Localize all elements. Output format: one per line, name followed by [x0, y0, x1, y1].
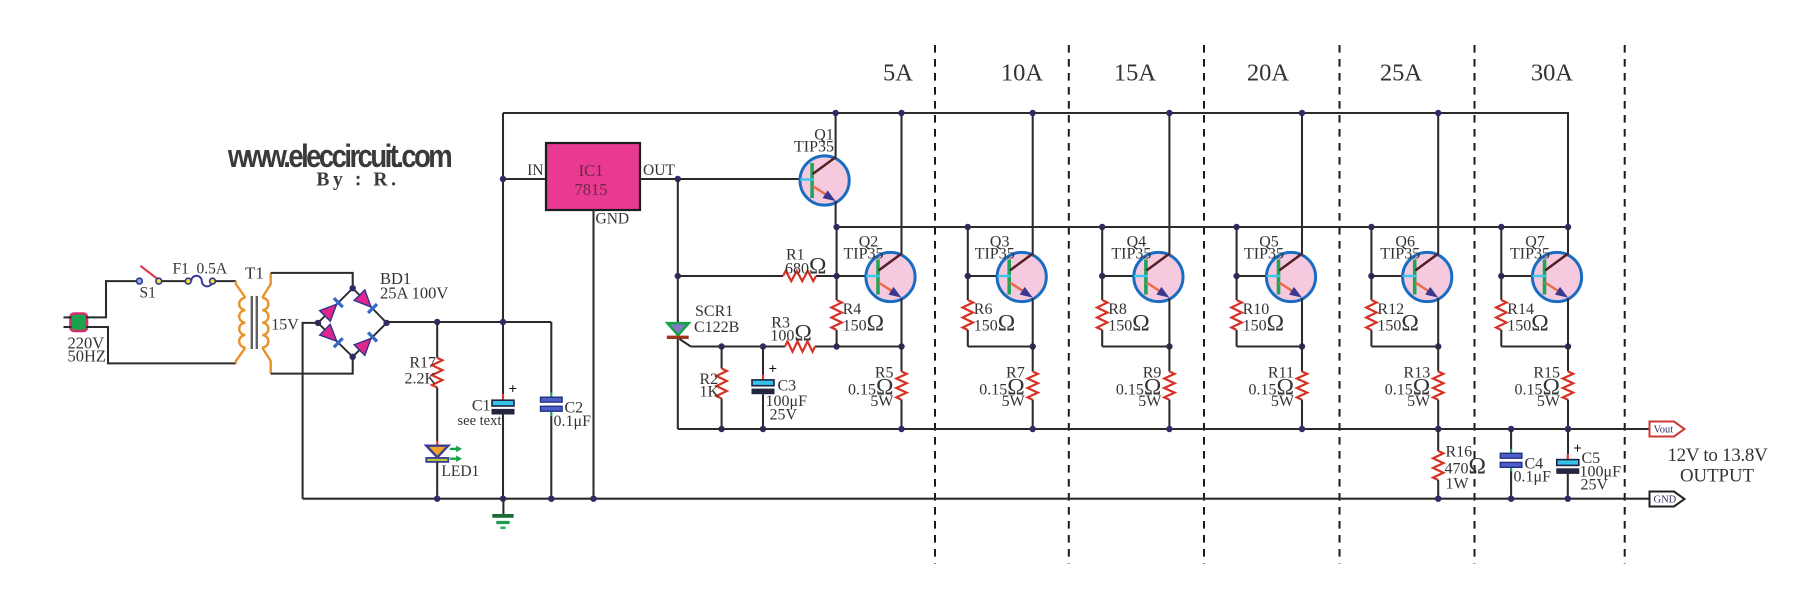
fuse F1 terminal right	[210, 278, 216, 284]
svg-text:GND: GND	[1654, 495, 1677, 506]
wire base drop Q7	[1500, 227, 1502, 276]
wire emitter join Q5	[1237, 345, 1302, 347]
label R15 0.15ohm	[1515, 374, 1560, 400]
base drive rail	[837, 226, 1568, 228]
wire R17 top	[436, 322, 438, 358]
resistor R15	[1563, 347, 1573, 430]
svg-text:7815: 7815	[575, 180, 608, 199]
svg-text:1K: 1K	[700, 384, 720, 401]
wire C1 to ground rail	[502, 415, 504, 499]
wire emitter join Q7	[1501, 345, 1568, 347]
svg-text:5W: 5W	[1002, 393, 1026, 410]
svg-text:12V to 13.8V: 12V to 13.8V	[1667, 445, 1768, 466]
wire base drop Q2	[836, 227, 838, 276]
wire unregulated DC riser	[502, 113, 504, 179]
wire base lead Q2	[837, 275, 867, 277]
wire BD1 right node to C2	[387, 321, 552, 323]
label 15V	[271, 317, 299, 334]
switch S1 contact right	[156, 278, 162, 284]
node R16 bottom	[1435, 496, 1441, 502]
resistor R3	[785, 341, 815, 351]
svg-text:10A: 10A	[1001, 60, 1044, 87]
svg-text:5W: 5W	[870, 393, 894, 410]
wire IN node down to filter	[502, 179, 504, 395]
svg-text:see text: see text	[458, 413, 502, 429]
wire emitter Q3	[1032, 298, 1034, 346]
scr SCR1 triangle	[668, 323, 689, 335]
svg-text:0.1μF: 0.1μF	[1514, 469, 1552, 486]
transformer T1 core	[252, 296, 257, 349]
transformer T1 secondary winding	[262, 273, 271, 374]
wire base lead Q7	[1501, 275, 1532, 277]
svg-text:IC1: IC1	[579, 161, 604, 180]
transistor Q1	[800, 156, 849, 205]
resistor R6	[963, 276, 973, 347]
plug prong bottom	[64, 326, 72, 328]
svg-text:0.5A: 0.5A	[197, 261, 228, 278]
node base rail Q3	[965, 224, 971, 230]
label R5 5W	[870, 393, 894, 410]
wire base drop Q3	[967, 227, 969, 276]
resistor R11	[1297, 347, 1307, 430]
wire T1 secondary bottom to BD1 AC bottom	[271, 357, 353, 374]
led LED1 anode stub	[436, 441, 438, 446]
led LED1 cathode bar	[426, 458, 448, 462]
svg-text:+: +	[509, 382, 518, 398]
svg-text:25V: 25V	[1581, 477, 1609, 494]
wire T1 secondary top to BD1 AC top	[271, 273, 353, 288]
label 1K	[700, 384, 720, 401]
label R3	[771, 315, 790, 332]
svg-text:TIP35: TIP35	[975, 246, 1015, 263]
node collector Q6	[1435, 110, 1441, 116]
fuse F1 terminal left	[185, 278, 191, 284]
plug P1 body	[71, 314, 88, 332]
label Q3	[990, 234, 1010, 251]
wire BD1 left node to ground rail	[303, 323, 318, 499]
ic GND lead	[592, 210, 594, 499]
wire emitter Q4	[1168, 298, 1170, 346]
svg-text:OUT: OUT	[643, 162, 675, 179]
wire collector Q2	[900, 113, 902, 254]
terminal Vout	[1650, 422, 1685, 437]
svg-text:R4: R4	[843, 301, 862, 318]
wire base drop Q6	[1370, 227, 1372, 276]
node collector Q4	[1166, 110, 1172, 116]
label 2.2K	[404, 371, 436, 388]
label R10 150ohm	[1243, 311, 1284, 337]
bridge BD1 frame	[318, 288, 387, 357]
title www.eleccircuit.com	[227, 139, 451, 174]
svg-text:30A: 30A	[1531, 60, 1574, 87]
resistor R9	[1164, 347, 1174, 430]
label Q1	[814, 127, 834, 144]
fuse F1 element	[191, 276, 212, 287]
wire S1 to F1	[162, 280, 185, 282]
svg-text:5W: 5W	[1407, 393, 1431, 410]
label 25V C3	[770, 407, 798, 424]
svg-text:5W: 5W	[1138, 393, 1162, 410]
node emitter Q4	[1166, 343, 1172, 349]
node base Q3	[965, 273, 971, 279]
capacitor C4	[1500, 449, 1522, 472]
title By : R.	[316, 170, 399, 191]
label 0.1uF	[554, 413, 592, 430]
label Q4	[1127, 234, 1147, 251]
wire F1 to T1 primary top	[215, 280, 236, 282]
label Q5 TIP35	[1244, 246, 1284, 263]
label 0.5A	[197, 261, 228, 278]
node R1 left junction	[675, 273, 681, 279]
wire C3 bottom	[762, 394, 764, 429]
wire emitter join Q6	[1371, 345, 1438, 347]
label Q1 TIP35	[794, 139, 834, 156]
svg-text:2.2K: 2.2K	[404, 371, 436, 388]
label 25A 100V	[380, 284, 448, 303]
transistor Q2	[866, 252, 915, 301]
label C4 0.1uF	[1514, 469, 1552, 486]
svg-text:TIP35: TIP35	[1510, 246, 1550, 263]
bridge node bottom	[350, 354, 356, 360]
wire emitter join Q3	[968, 345, 1033, 347]
label R13 0.15ohm	[1385, 374, 1430, 400]
node R15 bottom	[1565, 426, 1571, 432]
node R5 bottom	[898, 426, 904, 432]
svg-text:20A: 20A	[1247, 60, 1290, 87]
label Q5	[1259, 234, 1279, 251]
label T1	[245, 264, 264, 283]
transistor Q5	[1266, 252, 1315, 301]
label R14 150ohm	[1507, 311, 1548, 337]
label C5	[1582, 450, 1601, 467]
resistor R1 wire right	[816, 275, 837, 277]
label IC1	[579, 161, 604, 180]
svg-text:0.1μF: 0.1μF	[554, 413, 592, 430]
label R8 150ohm	[1108, 311, 1149, 337]
wire base lead Q5	[1237, 275, 1267, 277]
svg-text:TIP35: TIP35	[844, 246, 884, 263]
label R8	[1108, 301, 1127, 318]
label R12	[1377, 301, 1404, 318]
svg-text:1W: 1W	[1446, 476, 1470, 493]
label R2	[700, 371, 719, 388]
wire collector Q6	[1437, 113, 1439, 254]
transformer T1 primary winding	[236, 281, 246, 363]
wire C4 bottom	[1510, 471, 1512, 498]
bridge diode lower-right	[354, 333, 377, 356]
resistor R17	[432, 358, 442, 388]
label R15 5W	[1537, 393, 1561, 410]
node R9 bottom	[1166, 426, 1172, 432]
svg-text:50HZ: 50HZ	[68, 347, 107, 366]
label F1	[173, 261, 189, 278]
svg-text:C3: C3	[778, 378, 797, 395]
svg-text:R6: R6	[974, 301, 993, 318]
label 50HZ	[68, 347, 107, 366]
wire OUT riser down	[677, 179, 679, 323]
label C4	[1525, 456, 1544, 473]
node C5 bottom	[1565, 496, 1571, 502]
label Q3 TIP35	[975, 246, 1015, 263]
node emitter Q5	[1299, 343, 1305, 349]
wire emitter join Q4	[1102, 345, 1169, 347]
gate wire right	[815, 345, 837, 347]
resistor R16	[1433, 429, 1443, 499]
label LED1	[441, 463, 479, 480]
label R13 5W	[1407, 393, 1431, 410]
node collector Q5	[1299, 110, 1305, 116]
svg-text:SCR1: SCR1	[695, 303, 733, 320]
led LED1 arrow 2	[450, 455, 462, 462]
label SCR1	[695, 303, 733, 320]
node filter junction C1	[500, 319, 506, 325]
label R6	[974, 301, 993, 318]
label see text	[458, 413, 502, 429]
capacitor C1	[492, 382, 517, 414]
label 30A	[1531, 60, 1574, 87]
resistor R8	[1097, 276, 1107, 347]
node C3 top	[760, 343, 766, 349]
wire collector Q5	[1301, 113, 1303, 254]
label R16 1W	[1446, 476, 1470, 493]
wire plug top to S1	[86, 281, 137, 317]
node C2 ground	[548, 496, 554, 502]
node OUT junction	[675, 176, 681, 182]
svg-text:5W: 5W	[1271, 393, 1295, 410]
svg-text:IN: IN	[527, 162, 543, 179]
bridge node left	[315, 320, 321, 326]
capacitor C5	[1557, 441, 1582, 473]
wire collector Q4	[1168, 113, 1170, 254]
label Q2 TIP35	[844, 246, 884, 263]
label 12V to 13.8V	[1667, 445, 1768, 466]
switch S1 contact left	[137, 278, 143, 284]
node Q1 collector	[832, 110, 838, 116]
svg-text:C122B: C122B	[694, 319, 739, 336]
svg-text:TIP35: TIP35	[1380, 246, 1420, 263]
label C2	[565, 400, 584, 417]
label R10	[1243, 301, 1270, 318]
Q1 collector wire	[835, 113, 837, 157]
resistor R7	[1028, 347, 1038, 430]
led LED1 triangle	[426, 446, 448, 458]
label R16	[1446, 444, 1473, 461]
label C3	[778, 378, 797, 395]
label R7	[1006, 365, 1025, 382]
wire C4 top	[1510, 429, 1512, 450]
resistor R14	[1496, 276, 1506, 347]
node R2 bottom	[718, 426, 724, 432]
wire R17 to LED1	[436, 388, 438, 442]
label R9	[1143, 365, 1162, 382]
transistor Q7	[1532, 252, 1581, 301]
label 10A	[1001, 60, 1044, 87]
node R7 bottom	[1030, 426, 1036, 432]
svg-text:T1: T1	[245, 264, 264, 283]
wire emitter Q7	[1567, 298, 1569, 346]
svg-text:TIP35: TIP35	[1244, 246, 1284, 263]
label R12 150ohm	[1377, 311, 1418, 337]
svg-text:F1: F1	[173, 261, 189, 278]
vout rail	[678, 428, 1650, 430]
label R11	[1268, 365, 1294, 382]
bridge diode lower-left	[320, 324, 343, 347]
wire IN	[503, 178, 546, 180]
svg-text:Vout: Vout	[1654, 425, 1674, 436]
wire SCR1 cathode down	[677, 339, 679, 429]
node R2 top	[718, 343, 724, 349]
svg-text:15V: 15V	[271, 317, 299, 334]
wire base drop Q5	[1236, 227, 1238, 276]
label BD1	[380, 269, 411, 288]
capacitor C2	[541, 393, 563, 416]
label 680ohm	[785, 254, 826, 280]
resistor R1 wire left	[678, 275, 783, 277]
svg-text:R14: R14	[1507, 301, 1534, 318]
svg-text:R12: R12	[1377, 301, 1404, 318]
node emitter Q3	[1030, 343, 1036, 349]
svg-text:5W: 5W	[1537, 393, 1561, 410]
label 7815	[575, 180, 608, 199]
node C3 bottom	[760, 426, 766, 432]
wire bridge plus to C2	[550, 322, 552, 393]
label R7 0.15ohm	[979, 374, 1024, 400]
label R16 470ohm	[1445, 454, 1486, 480]
node R16 top	[1435, 426, 1441, 432]
label S1	[140, 285, 156, 302]
node IC1 gnd	[590, 496, 596, 502]
ground symbol	[492, 499, 513, 528]
section divider dashed line 3	[1203, 45, 1205, 564]
label C1	[472, 398, 491, 415]
label R9 0.15ohm	[1116, 374, 1161, 400]
transistor Q3	[997, 252, 1046, 301]
svg-text:LED1: LED1	[441, 463, 479, 480]
node base Q5	[1233, 273, 1239, 279]
label R11 5W	[1271, 393, 1295, 410]
label OUTPUT	[1680, 466, 1755, 487]
section divider dashed line 2	[1068, 45, 1070, 564]
label R15	[1533, 365, 1560, 382]
label R6 150ohm	[974, 311, 1015, 337]
section divider dashed line 5	[1474, 45, 1476, 564]
node C4 top	[1508, 426, 1514, 432]
label R17	[409, 355, 436, 372]
node R11 bottom	[1299, 426, 1305, 432]
switch S1 blade	[140, 266, 156, 279]
wire C5 bottom	[1567, 474, 1569, 499]
node LED1 ground	[434, 496, 440, 502]
node base Q7	[1498, 273, 1504, 279]
terminal GND	[1650, 492, 1685, 507]
svg-text:GND: GND	[596, 211, 630, 228]
svg-text:5A: 5A	[883, 60, 913, 87]
label R11 0.15ohm	[1249, 374, 1294, 400]
node C4 bottom	[1508, 496, 1514, 502]
section divider dashed line 1	[934, 45, 936, 564]
wire collector Q3	[1032, 113, 1034, 254]
scr SCR1 cathode bar	[667, 336, 689, 339]
resistor R5	[896, 347, 906, 430]
label Q6 TIP35	[1380, 246, 1420, 263]
bridge node right	[383, 320, 389, 326]
gate wire left	[691, 345, 785, 347]
wire emitter join Q2	[837, 345, 902, 347]
resistor R13	[1433, 347, 1443, 430]
svg-text:25V: 25V	[770, 407, 798, 424]
label OUT	[643, 162, 675, 179]
svg-text:R10: R10	[1243, 301, 1270, 318]
node IN junction	[500, 176, 506, 182]
svg-text:15A: 15A	[1114, 60, 1157, 87]
label R5 0.15ohm	[848, 374, 893, 400]
node base rail Q5	[1233, 224, 1239, 230]
label R7 5W	[1002, 393, 1026, 410]
node C1 ground	[500, 496, 506, 502]
node C5 top	[1565, 426, 1571, 432]
led LED1 arrow 1	[450, 446, 462, 453]
label R4	[843, 301, 862, 318]
node base rail Q7	[1498, 224, 1504, 230]
ground rail wire	[303, 498, 1650, 500]
label Q7	[1525, 234, 1545, 251]
svg-text:By : R.: By : R.	[316, 170, 399, 191]
label 15A	[1114, 60, 1157, 87]
node base rail end	[1565, 224, 1571, 230]
svg-text:TIP35: TIP35	[1111, 246, 1151, 263]
label R9 5W	[1138, 393, 1162, 410]
node base Q6	[1368, 273, 1374, 279]
wire C3 top	[762, 347, 764, 375]
bridge diode upper-left	[320, 298, 343, 321]
label R14	[1507, 301, 1534, 318]
label C5 100uF	[1580, 464, 1622, 481]
regulator IC1 7815 body	[546, 143, 640, 210]
svg-text:25A 100V: 25A 100V	[380, 284, 448, 303]
svg-text:TIP35: TIP35	[794, 139, 834, 156]
resistor R12	[1366, 276, 1376, 347]
label 20A	[1247, 60, 1290, 87]
wire plug bottom to T1 primary bottom	[86, 327, 236, 363]
wire emitter Q5	[1301, 298, 1303, 346]
node base rail Q6	[1368, 224, 1374, 230]
node emitter Q7	[1565, 343, 1571, 349]
Q1 emitter wire	[835, 201, 837, 227]
svg-text:25A: 25A	[1380, 60, 1423, 87]
label 5A	[883, 60, 913, 87]
top supply rail	[503, 113, 1568, 227]
wire base drop Q4	[1101, 227, 1103, 276]
label Q7 TIP35	[1510, 246, 1550, 263]
label R1	[786, 247, 805, 264]
transistor Q6	[1403, 252, 1452, 301]
node R17 top	[434, 319, 440, 325]
resistor R1	[783, 271, 816, 281]
label IN	[527, 162, 543, 179]
wire R2 bottom	[721, 399, 723, 430]
node R4 bottom	[833, 343, 839, 349]
node collector Q3	[1030, 110, 1036, 116]
label R5	[875, 365, 894, 382]
svg-text:S1: S1	[140, 285, 156, 302]
label 25A	[1380, 60, 1423, 87]
section divider dashed line 4	[1339, 45, 1341, 564]
bridge node top	[350, 285, 356, 291]
wire base lead Q6	[1371, 275, 1402, 277]
node emitter Q6	[1435, 343, 1441, 349]
node collector Q2	[898, 110, 904, 116]
wire R2 top	[721, 347, 723, 369]
